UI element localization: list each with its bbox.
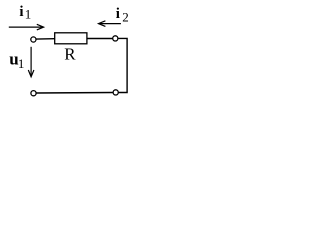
- wire bottom: [36, 92, 113, 95]
- svg-text:1: 1: [25, 7, 32, 22]
- current arrow i1: [9, 24, 44, 30]
- current arrow i2: [99, 21, 121, 27]
- label i1: [19, 4, 31, 22]
- voltage arrow u1: [28, 47, 34, 77]
- node terminal top-left: [31, 37, 36, 42]
- svg-text:2: 2: [122, 10, 129, 25]
- wire right side: top node to bottom node via right edge: [118, 38, 127, 92]
- label u1: [9, 49, 24, 71]
- node terminal top-right: [113, 36, 118, 41]
- wire resistor to top-right node: [87, 38, 113, 40]
- svg-text:i: i: [116, 6, 120, 22]
- resistor R: [55, 33, 87, 44]
- node terminal bottom-left: [31, 91, 36, 96]
- svg-text:R: R: [64, 45, 76, 64]
- wire top-left to resistor: [36, 38, 54, 40]
- node terminal bottom-right: [113, 90, 118, 95]
- svg-text:1: 1: [18, 56, 25, 71]
- label i2: [116, 6, 129, 25]
- svg-text:i: i: [19, 4, 23, 20]
